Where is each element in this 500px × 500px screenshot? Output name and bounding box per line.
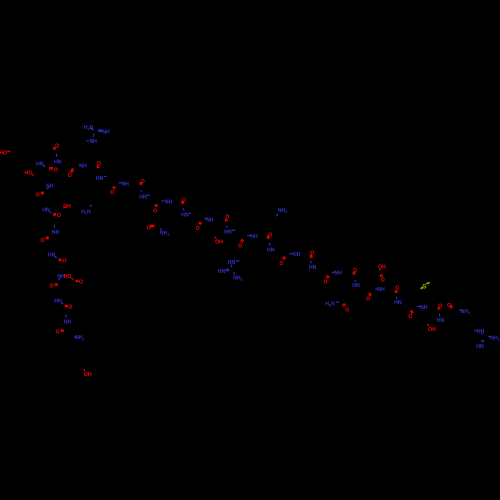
HN m stub (147, 194, 150, 196)
C=O l (113, 186, 116, 189)
svg-text:O: O (54, 167, 58, 173)
NH2 k stub (74, 336, 77, 338)
svg-text:HN: HN (309, 265, 317, 271)
C=O s (267, 236, 270, 240)
svg-text:HN: HN (224, 229, 232, 235)
svg-text:O: O (238, 244, 242, 250)
HN o stub (189, 212, 191, 214)
g2 NH2 stub (233, 272, 235, 274)
svg-text:O: O (55, 143, 59, 149)
NH c stub (79, 164, 81, 166)
svg-text:HN: HN (96, 176, 104, 182)
C-N o (182, 208, 185, 210)
Cterm C=O (450, 305, 453, 308)
g2 C-NH (231, 265, 233, 268)
svg-text:NH: NH (334, 271, 342, 277)
NH g stub (53, 225, 55, 228)
Met S stub2 (426, 283, 429, 284)
g2 HN stub (236, 260, 240, 263)
C=O i (55, 284, 58, 286)
svg-text:NH: NH (206, 217, 214, 223)
NH x stub (375, 288, 378, 290)
C=O n (155, 204, 157, 207)
C-N m (140, 190, 143, 192)
NH e stub (47, 187, 49, 189)
Asn2 NH2 stub (160, 229, 162, 230)
Met S stub1 (421, 287, 423, 289)
Asn C=O (343, 303, 346, 306)
svg-text:H2N: H2N (84, 125, 94, 131)
svg-text:NH: NH (64, 320, 72, 326)
svg-text:O: O (110, 190, 114, 196)
svg-text:NH: NH (89, 139, 97, 145)
svg-text:O: O (141, 179, 145, 185)
C=O f (53, 214, 56, 216)
svg-text:O: O (196, 226, 200, 232)
svg-text:O: O (147, 225, 151, 231)
g3 NH-C (481, 333, 484, 335)
C-N y (395, 297, 397, 299)
svg-text:H2N: H2N (81, 209, 91, 215)
NH v stub (332, 271, 336, 273)
svg-text:HO: HO (0, 150, 7, 156)
C=O h (58, 259, 61, 261)
svg-text:HN: HN (228, 260, 236, 266)
svg-text:OH: OH (378, 265, 386, 271)
svg-text:O: O (279, 261, 283, 267)
svg-text:NH: NH (293, 252, 301, 258)
svg-text:HN: HN (48, 253, 56, 259)
svg-text:O: O (366, 297, 370, 303)
svg-text:O: O (182, 198, 186, 204)
svg-text:HN: HN (42, 207, 50, 213)
g1 C=NH (98, 130, 102, 132)
C=O o (181, 201, 184, 204)
g1 C-NH (93, 134, 95, 137)
svg-text:O: O (57, 213, 61, 219)
svg-text:NH: NH (420, 305, 428, 311)
Cterm NH2 stub (459, 309, 462, 311)
HN q stub (232, 229, 236, 232)
N-C a (55, 154, 57, 157)
Asn H2N stub (336, 301, 339, 303)
C=O p (199, 222, 202, 225)
NH l stub (119, 182, 122, 184)
svg-text:OH: OH (63, 204, 71, 210)
svg-text:O: O (395, 285, 399, 291)
svg-text:O: O (153, 209, 157, 215)
C=O r (241, 239, 244, 243)
svg-text:O: O (438, 304, 442, 310)
svg-text:H2N: H2N (325, 302, 335, 308)
NH k stub (65, 315, 68, 318)
svg-text:HN: HN (54, 160, 62, 166)
g3 C=NH (481, 340, 483, 343)
Glu OH stub (379, 268, 381, 270)
C-N u (310, 261, 313, 264)
g2 C=NH (226, 269, 229, 271)
svg-text:O: O (62, 258, 66, 264)
C=O b (49, 168, 53, 170)
C=O g (46, 237, 49, 239)
Lys2 NH2 stub (276, 214, 278, 216)
OH f stub (64, 207, 66, 209)
C=O j (65, 305, 68, 307)
svg-text:OH: OH (215, 239, 223, 245)
HN d stub (104, 175, 107, 177)
C-N s (268, 243, 271, 246)
svg-text:O: O (345, 308, 349, 314)
Asp HO stub (71, 278, 73, 280)
C=O x (369, 293, 372, 296)
svg-text:O: O (56, 330, 60, 336)
svg-text:NH: NH (250, 234, 258, 240)
svg-text:NH: NH (46, 184, 54, 190)
svg-text:HN: HN (437, 318, 445, 324)
svg-text:NH: NH (52, 230, 60, 236)
svg-text:HN: HN (267, 248, 275, 254)
svg-text:O: O (79, 280, 83, 286)
C=O z (410, 310, 413, 314)
g1 NH-CH2 (87, 140, 89, 142)
svg-text:HN: HN (54, 298, 62, 304)
svg-text:O: O (36, 192, 40, 198)
C-N q (226, 226, 228, 228)
C=O d (70, 168, 74, 173)
HN j stub (61, 302, 63, 304)
svg-text:NH: NH (102, 129, 110, 135)
svg-text:O: O (381, 278, 385, 284)
g3 C-NH2 (488, 336, 491, 338)
C=O w (353, 272, 355, 275)
NH n stub (162, 200, 165, 202)
C=O y (395, 290, 397, 293)
NH p stub (204, 217, 207, 219)
Thr OH stub (215, 237, 217, 239)
g3 NH stubW (474, 330, 477, 332)
svg-text:HN: HN (394, 300, 402, 306)
svg-text:O: O (68, 304, 72, 310)
svg-text:O: O (40, 238, 44, 244)
svg-text:NH: NH (377, 287, 385, 293)
svg-text:S: S (422, 283, 426, 290)
svg-text:HN: HN (139, 194, 147, 200)
Asp C=O (76, 280, 79, 282)
svg-text:HN: HN (352, 283, 360, 289)
C=O a (53, 147, 56, 151)
svg-text:HN: HN (36, 161, 44, 167)
svg-text:NH: NH (477, 329, 485, 335)
NH r stub (247, 235, 251, 237)
svg-text:OH: OH (428, 327, 436, 333)
Thr2 OH stub (427, 324, 429, 326)
svg-text:O: O (310, 251, 314, 257)
svg-text:O: O (50, 284, 54, 290)
C=O m (140, 182, 143, 185)
NH t stub (289, 253, 293, 255)
svg-text:NH: NH (79, 163, 87, 169)
svg-text:HO: HO (25, 170, 33, 176)
svg-text:NH: NH (165, 199, 173, 205)
C=O aa (438, 307, 441, 310)
svg-text:HN: HN (476, 344, 484, 350)
svg-text:HN: HN (181, 213, 189, 219)
svg-text:OH: OH (84, 372, 92, 378)
Ser HO stub (32, 174, 33, 176)
NH z stub (417, 306, 421, 308)
svg-text:O: O (97, 161, 101, 167)
HN f stub (49, 211, 51, 213)
C-N aa (438, 314, 441, 317)
HN h stub (55, 256, 57, 258)
Glu C=O (380, 274, 383, 277)
svg-text:O: O (68, 173, 72, 179)
svg-text:O: O (447, 303, 451, 309)
Asn2 C=O (150, 225, 154, 227)
svg-text:O: O (353, 268, 357, 274)
C=O u (310, 254, 312, 258)
Lys NH2 stub (90, 205, 92, 207)
C-N w (354, 280, 356, 282)
C=O q (225, 219, 227, 222)
svg-text:O: O (268, 233, 272, 239)
svg-text:O: O (323, 279, 327, 285)
svg-text:O: O (408, 314, 412, 320)
C=O c (97, 165, 99, 168)
svg-text:O: O (225, 215, 229, 221)
svg-text:HN: HN (218, 269, 226, 275)
NH i stub (59, 278, 60, 280)
C=O k (61, 330, 64, 332)
svg-text:NH: NH (121, 181, 129, 187)
C=O v (326, 275, 329, 279)
C=O e (41, 192, 44, 194)
Tyr1 HO-ring (7, 150, 10, 152)
svg-text:HO: HO (64, 274, 72, 280)
Tyr2 OH stub (84, 369, 86, 371)
C=O t (282, 256, 285, 260)
g1 H2N-C (91, 128, 94, 130)
HN b stub (43, 165, 45, 167)
